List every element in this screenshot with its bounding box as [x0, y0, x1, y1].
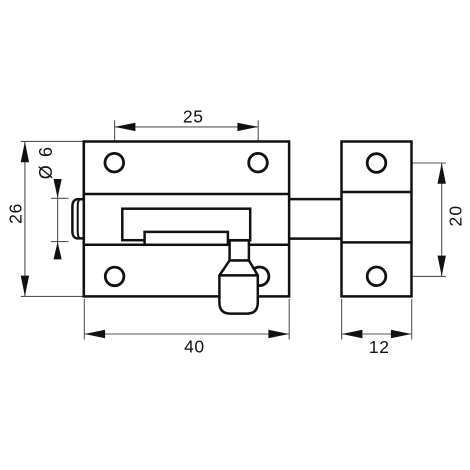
bolt tip (left, protruding): [72, 199, 84, 238]
dimension 25: left extension line: [114, 120, 116, 151]
dimension 20: top leader line: [387, 162, 446, 164]
dimension 40: left extension line: [83, 299, 85, 340]
dimension 20: top arrowhead: [438, 163, 446, 184]
plate bottom-left screw hole: [105, 267, 124, 286]
dimension 40: right arrowhead: [268, 330, 289, 338]
svg-text:25: 25: [183, 107, 204, 127]
dimension 20: dimension line: [441, 163, 443, 276]
dimension 25: right extension line: [257, 120, 259, 151]
keeper bottom screw hole: [367, 267, 386, 286]
bolt body plate: [84, 142, 289, 297]
bolt rod top line: [289, 198, 341, 201]
svg-text:40: 40: [184, 336, 205, 356]
dimension 12: left extension line: [341, 299, 343, 340]
dimension 26: bottom extension line: [21, 295, 85, 297]
dimension 12: left arrowhead: [342, 330, 363, 338]
knob body shoulder line: [219, 274, 257, 277]
dimension 26: bottom arrowhead: [21, 276, 29, 297]
knob stem: [230, 240, 249, 260]
keeper lower division line: [342, 241, 412, 244]
bolt tip end-face line: [78, 199, 80, 238]
plate bottom-right screw hole: [250, 267, 269, 286]
dimension 25: left arrowhead: [115, 123, 135, 131]
keeper plate: [342, 142, 412, 297]
bolt rod bottom line: [289, 237, 341, 240]
dimension 25: right arrowhead: [237, 123, 258, 131]
plate top-left screw hole: [105, 153, 124, 172]
svg-text:20: 20: [446, 205, 466, 227]
plate channel bottom line: [84, 244, 289, 247]
dimension 12: right arrowhead: [391, 330, 412, 338]
dimension 25: dimension line: [115, 126, 259, 128]
svg-text:12: 12: [369, 337, 390, 357]
keeper top screw hole: [367, 154, 386, 173]
svg-text:Ø 6: Ø 6: [36, 145, 56, 179]
dimension diameter 6: lower tick: [51, 241, 69, 243]
dimension diameter 6: upper tick: [51, 197, 69, 199]
plate left edge (over bolt tip): [83, 142, 86, 297]
knob body: [219, 260, 257, 313]
dimension 40: dimension line: [84, 333, 289, 335]
dimension 20: bottom leader line: [387, 275, 446, 277]
dimension 12: dimension line: [342, 333, 412, 335]
dimension 40: right extension line: [288, 299, 290, 340]
slider bar: [145, 232, 228, 245]
dimension diameter 6: lower arrowhead (points up): [54, 242, 62, 260]
dimension diameter 6: leader line: [57, 180, 59, 257]
dimension 26: top arrowhead: [21, 142, 29, 163]
slider guide cutout: [122, 209, 250, 241]
dimension diameter 6: upper arrowhead (points down): [54, 179, 62, 198]
svg-text:26: 26: [5, 203, 25, 224]
dimension 12: right extension line: [411, 299, 413, 340]
keeper upper division line: [342, 191, 412, 194]
dimension 40: left arrowhead: [85, 330, 106, 338]
dimension 26: top extension line: [21, 140, 84, 142]
dimension 20: bottom arrowhead: [438, 256, 446, 277]
plate top-right screw hole: [249, 153, 268, 172]
plate channel top line: [84, 193, 289, 196]
dimension 26: dimension line: [24, 141, 26, 296]
